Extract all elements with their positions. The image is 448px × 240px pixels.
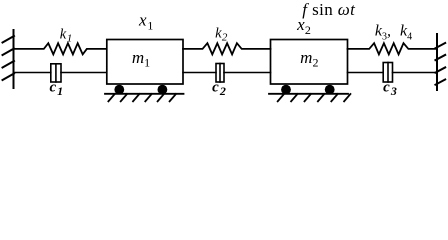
roller left under m2: [281, 85, 291, 95]
spring k1: [14, 43, 107, 54]
damper c1: [14, 64, 107, 82]
damper c2: [183, 64, 271, 83]
ground under m2: [269, 94, 350, 102]
mass m2: [271, 40, 348, 85]
ground under m1: [105, 94, 184, 102]
left wall: [3, 30, 15, 88]
spring k3 k4: [348, 43, 438, 54]
svg-text:f sin ωt: f sin ωt: [302, 0, 356, 19]
spring k2: [183, 43, 271, 54]
roller right under m1: [158, 85, 168, 95]
roller left under m1: [114, 85, 124, 95]
damper c3: [348, 63, 438, 83]
roller right under m2: [325, 85, 335, 95]
mass m1: [107, 40, 183, 85]
right wall: [435, 34, 445, 90]
